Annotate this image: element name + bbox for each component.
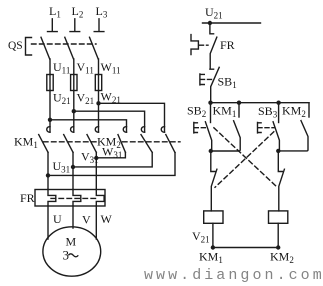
svg-text:www.diangon.com: www.diangon.com <box>144 267 323 284</box>
svg-text:KM1: KM1 <box>199 250 223 266</box>
svg-text:KM2: KM2 <box>282 104 306 120</box>
svg-text:L3: L3 <box>96 4 108 20</box>
svg-text:V21: V21 <box>192 229 210 245</box>
svg-text:L1: L1 <box>49 4 61 20</box>
svg-text:L2: L2 <box>72 4 84 20</box>
svg-text:SB1: SB1 <box>218 75 237 91</box>
svg-text:U21: U21 <box>53 91 71 107</box>
svg-text:V: V <box>82 213 91 227</box>
svg-text:U: U <box>53 212 62 226</box>
svg-text:W21: W21 <box>101 90 121 106</box>
svg-text:KM1: KM1 <box>213 104 237 120</box>
svg-text:FR: FR <box>220 38 235 52</box>
svg-text:FR: FR <box>20 191 35 205</box>
svg-text:U31: U31 <box>53 159 71 175</box>
svg-text:SB3: SB3 <box>258 104 278 120</box>
svg-text:KM1: KM1 <box>14 135 38 151</box>
svg-text:QS: QS <box>8 40 23 52</box>
svg-text:W: W <box>101 212 113 226</box>
svg-text:M: M <box>66 235 77 249</box>
svg-text:V11: V11 <box>77 60 94 76</box>
svg-text:SB2: SB2 <box>187 104 206 120</box>
svg-text:W11: W11 <box>101 60 121 76</box>
svg-text:U21: U21 <box>205 5 223 21</box>
svg-text:U11: U11 <box>53 60 70 76</box>
svg-text:V21: V21 <box>77 91 95 107</box>
svg-text:KM2: KM2 <box>270 250 294 266</box>
